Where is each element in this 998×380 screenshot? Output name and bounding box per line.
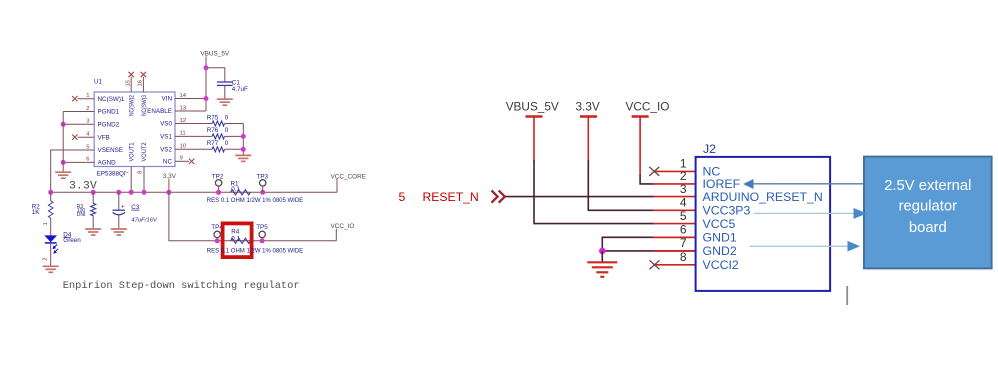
wire TP4 stem [216, 238, 218, 241]
wire R76 to gnd bus [225, 135, 244, 137]
ic U1 right pin name labels [147, 96, 172, 166]
capacitor C3 refdes underline [131, 209, 139, 211]
wire VBUS_5V stem down to VIN and ENABLE [205, 57, 207, 112]
wire pin2 stub (red) [653, 183, 696, 185]
svg-text:VS1: VS1 [160, 134, 172, 141]
svg-text:TP5: TP5 [256, 224, 268, 231]
wire pin7 stub (red) [653, 250, 696, 252]
resistor R2 body (vertical) [48, 201, 53, 218]
arrow line from GND2 to board [750, 245, 849, 247]
wire TP5 stem [261, 238, 263, 241]
wire pin11 VS1 lead [175, 135, 212, 137]
wire pin6 GND1 to ground drop [602, 237, 695, 251]
svg-text:1K: 1K [32, 209, 41, 216]
svg-text:8: 8 [680, 250, 687, 264]
ground below R3 [85, 229, 101, 235]
svg-text:Enpirion Step-down switching r: Enpirion Step-down switching regulator [63, 280, 300, 292]
wire TP2 stem [218, 186, 220, 192]
highlight box around R4 [223, 223, 252, 257]
wire pin5 stub (red) [653, 223, 696, 225]
ground for pins 2/3/6 [55, 172, 71, 178]
svg-text:VS0: VS0 [160, 121, 172, 128]
resistor R77 body [212, 147, 224, 152]
svg-text:R75: R75 [207, 114, 219, 121]
wire R3 to ground [92, 216, 94, 229]
svg-text:VCCI2: VCCI2 [703, 258, 739, 272]
wire pin10 VS2 lead [175, 148, 212, 150]
svg-text:0: 0 [225, 114, 229, 121]
no-connect X on pin 4 [72, 135, 77, 140]
svg-text:GND2: GND2 [703, 244, 737, 258]
svg-text:EP5388QI: EP5388QI [97, 171, 126, 178]
resistor R3 body (vertical) [91, 203, 96, 215]
wire pin2 PGND1 [63, 111, 94, 113]
resistor R76 body [212, 134, 224, 139]
svg-text:4.7uF: 4.7uF [232, 86, 248, 93]
wire pin4 VFB [78, 136, 95, 138]
wire pin1 stub (red) [655, 170, 696, 172]
wire pin3 stub (red) [653, 196, 696, 198]
node junction rail at TP2 [216, 190, 221, 195]
svg-text:VOUT1: VOUT1 [129, 142, 136, 161]
node junction rail at VOUT2 [142, 190, 147, 195]
node junction rail at VOUT1 [129, 190, 134, 195]
svg-text:4: 4 [86, 132, 90, 138]
svg-text:5: 5 [680, 209, 687, 223]
svg-text:regulator: regulator [899, 198, 957, 214]
svg-text:board: board [909, 220, 947, 236]
node junction rail at VSENSE/R2 [48, 190, 53, 195]
wire pin13 ENABLE [175, 110, 206, 112]
wire VCC_IO stem (red part) [639, 117, 641, 177]
wire pin14 VIN [175, 98, 206, 100]
svg-text:Green: Green [63, 237, 81, 244]
wire VBUS_5V stem (red part) [533, 117, 535, 162]
svg-text:5: 5 [399, 190, 406, 204]
ic U1 left pin name labels [98, 96, 125, 167]
wire R77 to gnd bus [225, 148, 244, 150]
text cursor mark [846, 286, 848, 305]
capacitor C1 plates [217, 82, 233, 85]
svg-text:11: 11 [180, 131, 186, 137]
wire pin12 VS0 lead [175, 123, 212, 125]
wire gnd stub pins 2/3/6 [62, 112, 64, 172]
svg-text:0: 0 [225, 127, 229, 134]
wire VCC_IO stem down to pin2 row [640, 175, 654, 184]
svg-text:NC(SW)3: NC(SW)3 [141, 95, 148, 116]
wire VBUS_5V stem down to pin5 row [534, 160, 654, 224]
node junction R77 gnd bus [241, 147, 246, 152]
testpoint TP3 pad [260, 180, 266, 186]
svg-text:14: 14 [180, 93, 187, 99]
off-page connector chevron [492, 191, 505, 203]
svg-text:5: 5 [86, 144, 90, 150]
svg-text:VOUT2: VOUT2 [141, 142, 148, 161]
ic U1 left pin numbers 1-6 [86, 93, 90, 163]
ic U1 top pin name labels NC(SW)2 NC(SW)3 (rotated) [129, 95, 148, 116]
capacitor C3 curved bottom plate [113, 212, 125, 214]
svg-text:15: 15 [126, 79, 132, 86]
svg-text:AGND: AGND [98, 160, 117, 167]
testpoint TP4 pad [214, 231, 220, 237]
svg-text:VIN: VIN [162, 96, 173, 103]
wire R75 to gnd bus [225, 123, 244, 125]
wire R2 to LED [50, 218, 52, 236]
no-connect X on pin 9 [189, 159, 194, 164]
connector J2 pin numbers 1-8 [680, 157, 687, 264]
wire rail up to VCC_CORE flag [336, 179, 338, 193]
svg-text:RES 0.1 OHM 1/2W 1% 0805 WIDE: RES 0.1 OHM 1/2W 1% 0805 WIDE [207, 198, 303, 204]
wire vertical gnd bus for R75-R77 [242, 124, 244, 156]
node junction rail at C3 [116, 190, 121, 195]
ground below R75-R77 [235, 155, 251, 161]
wire pin4 stub (red) [653, 209, 696, 211]
testpoint TP2 pad [215, 180, 221, 186]
wire pin3 PGND2 [63, 123, 94, 125]
svg-text:9: 9 [180, 156, 183, 162]
wire 3.3V tap down to VCC_IO row [169, 192, 336, 241]
svg-text:7: 7 [125, 171, 131, 174]
svg-text:VCC_CORE: VCC_CORE [331, 174, 367, 181]
svg-text:3.3V: 3.3V [163, 173, 177, 180]
svg-text:RESET_N: RESET_N [423, 190, 479, 204]
capacitor C3 top plate [113, 209, 125, 211]
svg-text:16: 16 [138, 79, 144, 86]
wire C3 to ground [118, 215, 120, 229]
node junction pin6 on gnd stub [61, 160, 66, 165]
wire pin6 AGND [63, 161, 94, 163]
svg-text:6: 6 [680, 223, 687, 237]
svg-text:U1: U1 [94, 79, 103, 86]
svg-text:J2: J2 [703, 142, 716, 156]
svg-text:10: 10 [180, 144, 187, 150]
wire 3.3V tap stem [168, 179, 170, 193]
node junction R76 gnd bus [241, 134, 246, 139]
svg-text:12: 12 [180, 118, 187, 124]
ground below LED D4 [43, 266, 59, 272]
svg-text:NC(SW)2: NC(SW)2 [129, 95, 136, 116]
svg-text:ARDUINO_RESET_N: ARDUINO_RESET_N [703, 190, 823, 204]
arrow head pointing left at IOREF [743, 179, 753, 189]
wire pin8 stub (red) [655, 264, 696, 266]
node junction TP4 [215, 238, 220, 243]
svg-text:13: 13 [180, 105, 187, 111]
wire pin6 stub (red) [653, 236, 696, 238]
arrow head pointing right into board (VCC3P3) [854, 208, 868, 219]
node junction TP5 [260, 238, 265, 243]
svg-text:3.3V: 3.3V [69, 180, 97, 192]
svg-text:PGND2: PGND2 [98, 122, 120, 129]
svg-text:2.5V external: 2.5V external [884, 178, 971, 194]
wire up to VCC_IO flag [335, 229, 337, 241]
svg-text:3: 3 [680, 182, 687, 196]
wire pin7 VOUT1 down to rail [130, 167, 132, 193]
ic U1 EP5388QI body [94, 92, 175, 167]
svg-text:6: 6 [86, 157, 90, 163]
arrow line from board to IOREF [753, 183, 864, 185]
ic U1 right pin numbers 14-9 [180, 93, 187, 162]
wire rail to C3 [118, 192, 120, 210]
wire rail to R2 [50, 192, 52, 201]
wire pin7 GND2 [602, 250, 695, 252]
wire TP3 stem [262, 186, 264, 192]
svg-text:VSENSE: VSENSE [98, 147, 124, 154]
svg-text:NC: NC [163, 159, 173, 166]
node junction GND1/GND2 (magenta) [599, 248, 606, 255]
wire RESET_N to pin3 [506, 196, 654, 198]
svg-text:NC(SW)1: NC(SW)1 [98, 96, 125, 103]
svg-text:DNI: DNI [77, 212, 86, 218]
svg-text:VCC_IO: VCC_IO [626, 99, 670, 113]
svg-text:4: 4 [680, 196, 687, 210]
no-connect X on J2 pin1 [649, 167, 659, 176]
node junction TP2 [216, 190, 221, 195]
ic U1 bottom pin name labels VOUT1 VOUT2 (rotated) [129, 142, 149, 161]
svg-text:R76: R76 [207, 127, 219, 134]
svg-text:47uF/16V: 47uF/16V [131, 218, 158, 224]
svg-text:7: 7 [680, 236, 687, 250]
arrow line from VCC3P3 to board [754, 212, 854, 214]
svg-text:ENABLE: ENABLE [147, 108, 172, 115]
node junction rail at 3.3V tap [166, 190, 171, 195]
wire branch to C1 [206, 68, 225, 82]
svg-text:VBUS_5V: VBUS_5V [506, 99, 559, 113]
wire 3.3V stem down to pin4 row [588, 160, 654, 210]
no-connect X on pin 16 [141, 72, 146, 77]
wire LED to ground [50, 243, 52, 266]
ground below C3 [111, 229, 127, 235]
svg-text:3.3V: 3.3V [576, 99, 600, 113]
resistor R1 body [231, 190, 251, 195]
ic U1 bottom pin numbers 7 8 (rotated) [125, 170, 144, 174]
svg-text:1: 1 [43, 222, 49, 225]
wire 3.3V stem (red part) [587, 117, 589, 162]
svg-text:VFB: VFB [98, 134, 110, 141]
testpoint TP5 pad [259, 231, 265, 237]
led D4 refdes underline [63, 236, 71, 238]
resistor R4 body [231, 238, 251, 243]
svg-text:VCC5: VCC5 [703, 217, 736, 231]
wire pin1 NC(SW)1 [78, 98, 95, 100]
arrow head pointing right into board (GND2) [848, 241, 861, 252]
wire ground stem [601, 251, 603, 262]
svg-text:RES 0.1 OHM 1/2W 1% 0805 WIDE: RES 0.1 OHM 1/2W 1% 0805 WIDE [207, 249, 303, 255]
no-connect X on pin 1 [72, 96, 77, 101]
svg-text:VBUS_5V: VBUS_5V [200, 50, 230, 57]
svg-text:VS2: VS2 [160, 147, 172, 154]
node junction C1 branch [204, 65, 209, 70]
wire 3.3V rail [51, 191, 337, 193]
svg-text:1: 1 [86, 93, 89, 99]
node junction VIN VBUS [204, 96, 209, 101]
svg-text:2: 2 [86, 106, 89, 112]
wire C1 to ground [224, 85, 226, 98]
net flag VCC_IO bar [632, 115, 649, 118]
node junction pin3 on gnd stub [61, 122, 66, 127]
svg-text:VCC_IO: VCC_IO [331, 223, 355, 230]
svg-text:0: 0 [225, 140, 229, 147]
svg-text:R77: R77 [207, 140, 219, 147]
svg-text:2: 2 [42, 258, 48, 261]
net flag 3.3V bar [580, 115, 597, 118]
wire pin15 NC(SW)2 [130, 77, 132, 92]
ground symbol (right) [587, 262, 617, 277]
svg-text:8: 8 [138, 170, 144, 174]
no-connect X on pin 15 [129, 72, 134, 77]
node junction rail at R3 [91, 190, 96, 195]
wire pin5 VSENSE down to 3.3V rail [51, 150, 94, 192]
wire pin8 VOUT2 down to rail [143, 167, 145, 193]
svg-text:3: 3 [86, 119, 90, 125]
resistor R75 body [212, 121, 224, 126]
wire rail to R3 [92, 192, 94, 203]
no-connect X on J2 pin8 [650, 260, 660, 269]
wire pin9 NC [175, 160, 189, 162]
regulator board box [864, 157, 992, 269]
led D4 triangle [44, 235, 57, 242]
ic U1 top pin numbers 15 16 (rotated) [126, 79, 144, 86]
led D4 emission arrows [53, 244, 58, 253]
node junction rail at TP3 [260, 190, 265, 195]
led D4 cathode bar [45, 242, 57, 244]
net flag VBUS_5V bar [526, 115, 543, 118]
svg-text:GND1: GND1 [703, 231, 737, 245]
svg-text:PGND1: PGND1 [98, 109, 120, 116]
ground below C1 [217, 99, 233, 105]
connector J2 body [696, 157, 831, 291]
svg-text:VCC3P3: VCC3P3 [703, 204, 751, 218]
wire pin16 NC(SW)3 [142, 77, 144, 92]
